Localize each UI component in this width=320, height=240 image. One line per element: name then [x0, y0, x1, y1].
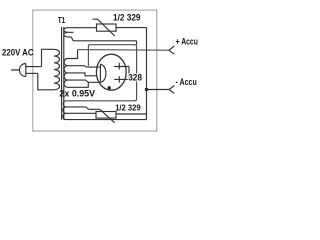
svg-text:328: 328	[128, 73, 142, 84]
wire plug bottom prong	[26, 72, 38, 74]
node junction dot - accu	[145, 88, 148, 91]
block U1 (328) outline	[66, 45, 137, 101]
svg-text:220V AC: 220V AC	[2, 47, 34, 58]
lamp LA2 (1/2 329 bottom)	[100, 109, 115, 123]
wire lamp LA2 to vertical rail	[116, 113, 147, 115]
svg-text:T1: T1	[58, 15, 66, 25]
wire top prong to primary top	[42, 49, 55, 66]
transistor U1 (328) body circle	[96, 54, 126, 90]
svg-text:2x 0.95V: 2x 0.95V	[60, 88, 96, 98]
transistor U1 lead 2 plate	[114, 76, 129, 83]
transformer T1 core	[62, 27, 64, 120]
wire + accu rail from winding 2	[78, 49, 169, 52]
wire - accu	[147, 89, 170, 91]
junction dot on circle bottom	[108, 86, 111, 89]
wire lamp LA1 to vertical rail	[116, 27, 147, 29]
wire right vertical rail	[146, 28, 148, 120]
mains plug P1	[11, 64, 26, 77]
node + accu terminal fork	[169, 46, 174, 54]
svg-text:- Accu: - Accu	[176, 77, 197, 87]
transformer T1 secondary winding 3 (bottom)	[63, 101, 100, 109]
wire winding1 lower terminal to block corner	[74, 41, 137, 45]
transformer T1 secondary winding 2 (middle)	[64, 59, 100, 68]
transistor U1 lead plates bracket	[128, 67, 130, 80]
transistor U1 lead 1 plate	[114, 63, 129, 70]
transistor U1 base arrow	[100, 64, 106, 82]
lamp LA1 (1/2 329 top)	[93, 19, 115, 36]
schematic border box	[33, 10, 157, 131]
transformer T1 primary winding	[54, 49, 60, 90]
wire winding2 top terminal riser to + rail	[68, 50, 78, 59]
node - accu terminal fork	[169, 86, 174, 94]
transformer T1 secondary winding 1 (top)	[64, 28, 97, 41]
svg-text:1/2 329: 1/2 329	[113, 13, 141, 23]
svg-text:1/2 329: 1/2 329	[115, 102, 141, 112]
wire plug top prong	[26, 66, 42, 68]
svg-text:+ Accu: + Accu	[176, 36, 198, 46]
wire bottom prong to primary bottom	[38, 73, 54, 89]
